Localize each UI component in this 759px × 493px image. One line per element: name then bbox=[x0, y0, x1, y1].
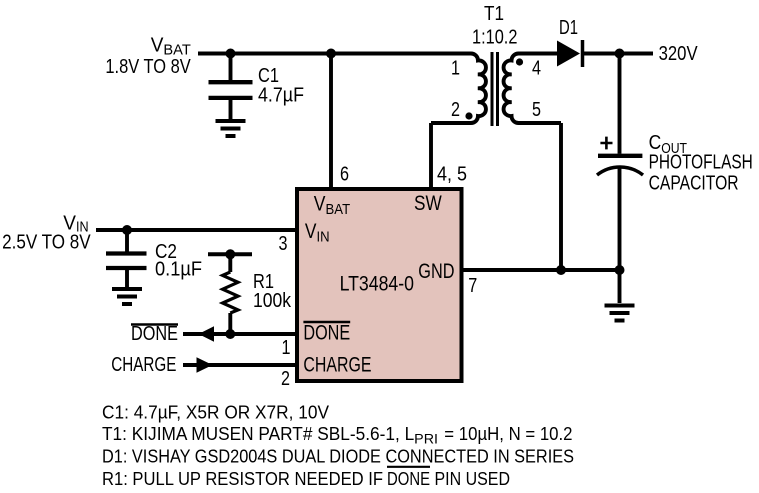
svg-text:T1: T1 bbox=[484, 2, 504, 25]
svg-text:CHARGE: CHARGE bbox=[111, 353, 176, 376]
wire diode to 320V bbox=[583, 52, 654, 56]
svg-text:SW: SW bbox=[414, 192, 442, 215]
svg-text:D1: D1 bbox=[559, 16, 578, 39]
svg-text:1.8V TO 8V: 1.8V TO 8V bbox=[105, 55, 191, 78]
wire C1 to ground bbox=[229, 100, 233, 119]
svg-text:1: 1 bbox=[451, 57, 460, 80]
svg-text:1:10.2: 1:10.2 bbox=[472, 26, 517, 49]
svg-text:4, 5: 4, 5 bbox=[437, 163, 467, 186]
svg-text:DONE: DONE bbox=[387, 469, 430, 489]
wire COUT top bbox=[618, 54, 622, 154]
svg-text:D1: VISHAY GSD2004S DUAL DIODE: D1: VISHAY GSD2004S DUAL DIODE CONNECTED… bbox=[102, 447, 574, 467]
wire GND line bbox=[464, 268, 620, 272]
svg-text:DONE: DONE bbox=[303, 322, 350, 345]
svg-text:1: 1 bbox=[282, 336, 291, 359]
T1 primary winding bbox=[431, 54, 486, 124]
wire DONE line bbox=[183, 332, 295, 336]
wire SW vertical bbox=[429, 123, 433, 187]
svg-text:DONE: DONE bbox=[131, 322, 178, 345]
svg-text:CAPACITOR: CAPACITOR bbox=[649, 172, 739, 195]
transformer T1 bbox=[472, 2, 517, 49]
wire C2 stub bbox=[125, 230, 129, 252]
svg-text:PHOTOFLASH: PHOTOFLASH bbox=[649, 151, 753, 174]
svg-text:PIN USED: PIN USED bbox=[435, 469, 511, 489]
svg-text:BAT: BAT bbox=[326, 201, 351, 218]
svg-text:2.5V TO 8V: 2.5V TO 8V bbox=[2, 231, 91, 254]
junction dot GND-COUT bbox=[615, 265, 625, 275]
ground C2 bbox=[112, 289, 142, 304]
junction dot 320V node bbox=[615, 49, 625, 59]
capacitor C2 bbox=[106, 240, 202, 281]
svg-text:4.7µF: 4.7µF bbox=[258, 84, 304, 107]
svg-text:R1: PULL UP RESISTOR NEEDED IF: R1: PULL UP RESISTOR NEEDED IF bbox=[102, 469, 383, 489]
svg-text:V: V bbox=[305, 220, 317, 243]
svg-text:IN: IN bbox=[317, 228, 330, 245]
ground C1 bbox=[216, 121, 246, 136]
wire C2 to ground bbox=[125, 270, 129, 287]
svg-text:0.1µF: 0.1µF bbox=[155, 258, 202, 281]
wire VBAT rail bbox=[198, 52, 471, 56]
junction dot R1-DONE bbox=[225, 329, 235, 339]
diode D1 bbox=[557, 16, 583, 67]
ground COUT bbox=[605, 306, 635, 321]
svg-text:100k: 100k bbox=[253, 289, 292, 312]
notes bbox=[102, 403, 574, 490]
svg-text:4: 4 bbox=[532, 57, 541, 80]
svg-text:= 10µH, N = 10.2: = 10µH, N = 10.2 bbox=[444, 424, 572, 444]
node VBAT label bbox=[105, 33, 191, 78]
wire CHARGE line bbox=[183, 363, 295, 367]
junction dot C2 tap bbox=[122, 225, 132, 235]
svg-text:2: 2 bbox=[281, 367, 290, 390]
op IC U1 LT3484-0 bbox=[297, 189, 462, 381]
capacitor COUT bbox=[597, 131, 753, 195]
svg-text:T1: KIJIMA MUSEN PART# SBL-5.6: T1: KIJIMA MUSEN PART# SBL-5.6-1, L bbox=[102, 424, 414, 444]
svg-text:CHARGE: CHARGE bbox=[303, 354, 371, 377]
svg-text:LT3484-0: LT3484-0 bbox=[340, 273, 414, 296]
arrow CHARGE (input, points right) bbox=[197, 357, 213, 373]
svg-text:GND: GND bbox=[418, 260, 454, 283]
T1 polarity dot primary pin2 bbox=[465, 112, 472, 119]
junction dot at pin6 tap bbox=[326, 49, 336, 59]
svg-text:3: 3 bbox=[279, 232, 288, 255]
T1 core bbox=[492, 52, 498, 126]
wire C1 stub bbox=[229, 54, 233, 81]
svg-text:2: 2 bbox=[451, 98, 460, 121]
node DONE label bbox=[131, 322, 178, 345]
svg-text:6: 6 bbox=[340, 163, 349, 186]
resistor R1 bbox=[208, 249, 292, 334]
T1 secondary winding bbox=[504, 54, 561, 124]
node VIN label bbox=[2, 212, 91, 254]
svg-text:320V: 320V bbox=[659, 42, 698, 65]
svg-text:V: V bbox=[314, 193, 326, 216]
capacitor C1 bbox=[209, 64, 305, 107]
wire secondary top to diode bbox=[519, 52, 558, 56]
wire COUT bottom bbox=[618, 168, 622, 303]
svg-text:5: 5 bbox=[532, 98, 541, 121]
junction dot at C1 tap bbox=[226, 49, 236, 59]
svg-text:V: V bbox=[151, 33, 164, 56]
T1 polarity dot secondary pin4 bbox=[516, 58, 523, 65]
wire VIN rail bbox=[96, 228, 295, 232]
svg-text:PRI: PRI bbox=[414, 432, 438, 447]
wire secondary pin5 vertical bbox=[559, 123, 563, 270]
junction dot GND-sec bbox=[556, 265, 566, 275]
arrow DONE (output, points left) bbox=[199, 326, 215, 342]
svg-text:7: 7 bbox=[468, 274, 477, 297]
wire pin6 vertical bbox=[329, 54, 333, 188]
svg-text:C1: 4.7µF, X5R OR X7R, 10V: C1: 4.7µF, X5R OR X7R, 10V bbox=[102, 403, 329, 423]
